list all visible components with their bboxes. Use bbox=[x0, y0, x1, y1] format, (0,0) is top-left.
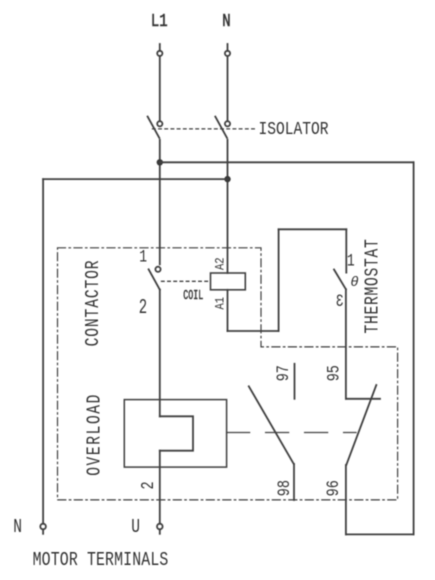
contactor main contact circle bbox=[155, 267, 160, 272]
wire down to thermostat bbox=[345, 229, 347, 272]
junction dot N bbox=[224, 176, 230, 182]
N terminal circle bbox=[225, 51, 230, 56]
N terminal stub bbox=[227, 44, 229, 51]
junction dot L1 bbox=[157, 159, 163, 165]
wire N isolator down to coil bbox=[227, 140, 229, 273]
svg-text:N: N bbox=[13, 517, 22, 538]
svg-text:MOTOR TERMINALS: MOTOR TERMINALS bbox=[33, 550, 169, 571]
overload heater element path bbox=[160, 416, 193, 450]
isolator pole L1 contact circle bbox=[157, 121, 162, 126]
isolator pole L1 switch arm bbox=[148, 117, 160, 138]
svg-text:96: 96 bbox=[323, 480, 343, 496]
svg-text:95: 95 bbox=[324, 365, 344, 381]
wire coil bottom horizontal bbox=[228, 330, 279, 332]
svg-text:L1: L1 bbox=[151, 10, 168, 32]
svg-text:2: 2 bbox=[139, 296, 147, 320]
wire left side down to motor terminal N bbox=[42, 179, 44, 524]
contact 95-96 arm bbox=[346, 385, 376, 465]
wire control top horizontal bbox=[279, 228, 347, 230]
isolator mechanical link dotted bbox=[153, 128, 257, 130]
wire contact 96 down bbox=[345, 465, 347, 534]
overload trip dashed link bbox=[227, 432, 356, 434]
svg-text:N: N bbox=[222, 10, 230, 32]
svg-text:U: U bbox=[131, 517, 140, 538]
svg-text:1: 1 bbox=[347, 251, 355, 271]
L1 terminal circle bbox=[157, 51, 162, 56]
contact 97-98 arm bbox=[249, 386, 294, 464]
svg-text:1: 1 bbox=[139, 246, 147, 267]
coil K1 box bbox=[211, 273, 246, 290]
isolator pole N contact circle bbox=[225, 121, 230, 126]
svg-text:2: 2 bbox=[138, 481, 159, 489]
motor terminal N stub bbox=[42, 530, 44, 534]
contact 95 fixed terminal bend bbox=[346, 398, 380, 400]
wire thermostat to contact 95 bbox=[345, 289, 347, 399]
svg-text:3: 3 bbox=[336, 291, 344, 311]
svg-text:A2: A2 bbox=[212, 257, 228, 270]
wire N down to isolator bbox=[227, 56, 229, 121]
svg-text:CONTACTOR: CONTACTOR bbox=[83, 260, 104, 347]
wire bottom right to contact 96 bbox=[346, 533, 414, 535]
contactor main contact arm bbox=[149, 269, 160, 289]
svg-text:OVERLOAD: OVERLOAD bbox=[85, 393, 106, 476]
wire control riser up bbox=[278, 229, 280, 331]
wire overload to motor terminal U bbox=[159, 451, 161, 524]
motor terminal U circle bbox=[157, 524, 163, 530]
svg-text:98: 98 bbox=[274, 480, 294, 496]
wire L1 down to isolator bbox=[159, 56, 161, 121]
overload heater box bbox=[124, 400, 226, 468]
contactor/overload dash-dot enclosure bbox=[58, 248, 398, 500]
svg-text:A1: A1 bbox=[212, 297, 228, 310]
svg-text:THERMOSTAT: THERMOSTAT bbox=[363, 238, 384, 333]
wire L1 isolator to contactor contact bbox=[159, 140, 161, 264]
svg-text:97: 97 bbox=[273, 365, 293, 381]
wire top rail to right side bbox=[160, 161, 414, 163]
contactor coil dotted link bbox=[162, 280, 211, 282]
wire contactor contact to overload bbox=[159, 290, 161, 417]
wire coil A1 down bbox=[227, 290, 229, 331]
contact 98 terminal stub bbox=[293, 464, 295, 500]
motor terminal N circle bbox=[40, 524, 46, 530]
L1 terminal stub bbox=[159, 44, 161, 51]
svg-text:θ: θ bbox=[350, 275, 358, 291]
wire right side down bbox=[413, 162, 415, 534]
motor terminal U stub bbox=[159, 530, 161, 534]
isolator pole N switch arm bbox=[215, 117, 227, 138]
svg-text:COIL: COIL bbox=[183, 289, 203, 303]
contact 97 terminal stub bbox=[294, 364, 296, 399]
wire N rail to left side bbox=[43, 178, 227, 180]
svg-text:ISOLATOR: ISOLATOR bbox=[259, 120, 329, 141]
thermostat switch arm bbox=[334, 270, 346, 290]
